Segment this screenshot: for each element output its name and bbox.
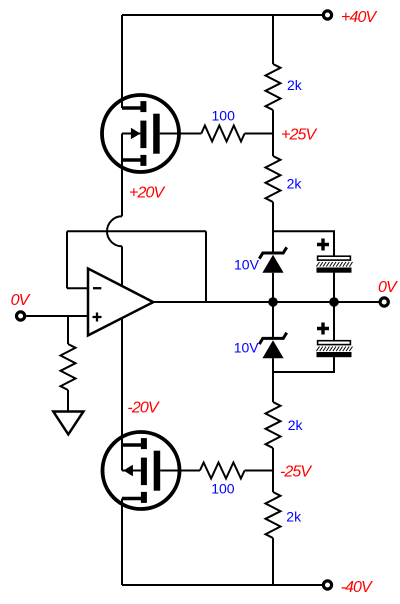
svg-text:0V: 0V <box>378 279 398 296</box>
svg-text:100: 100 <box>211 480 235 496</box>
svg-text:+20V: +20V <box>129 185 165 202</box>
svg-text:0V: 0V <box>11 292 31 309</box>
svg-text:2k: 2k <box>287 175 303 191</box>
svg-text:100: 100 <box>212 107 236 123</box>
svg-text:+25V: +25V <box>281 127 317 144</box>
svg-text:-40V: -40V <box>341 579 373 596</box>
svg-text:+40V: +40V <box>341 9 377 26</box>
svg-text:2k: 2k <box>287 77 303 93</box>
svg-text:2k: 2k <box>286 508 302 524</box>
svg-text:-20V: -20V <box>127 400 159 417</box>
svg-text:2k: 2k <box>288 417 304 433</box>
svg-text:-25V: -25V <box>280 464 312 481</box>
svg-text:10V: 10V <box>234 257 260 273</box>
svg-text:10V: 10V <box>234 340 260 356</box>
